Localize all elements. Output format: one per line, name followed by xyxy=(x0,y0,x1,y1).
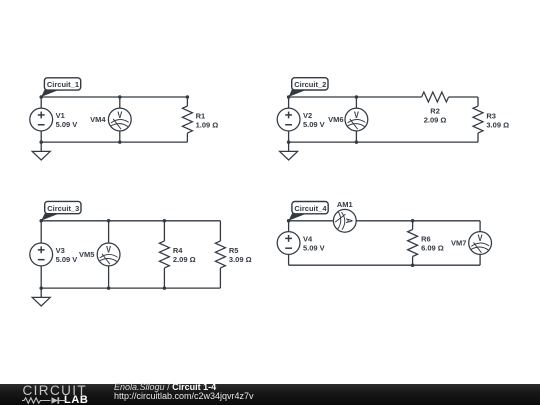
label V1 value xyxy=(56,111,78,129)
node: junction V4 top / flag Circuit_4 xyxy=(287,219,291,223)
resistor R5 xyxy=(215,221,225,288)
label AM1 xyxy=(337,200,353,209)
voltage source V3 xyxy=(30,221,53,288)
voltage source V4 xyxy=(277,221,300,265)
node: junction V1 bottom / ground xyxy=(39,140,43,144)
svg-text:A: A xyxy=(344,218,354,223)
node: junction V2 bottom / ground xyxy=(287,140,291,144)
svg-text:2.09 Ω: 2.09 Ω xyxy=(173,255,196,264)
ground xyxy=(280,142,298,160)
svg-text:R2: R2 xyxy=(430,106,440,115)
footer bar xyxy=(0,384,540,405)
voltmeter VM5 xyxy=(97,221,120,288)
resistor R2 xyxy=(422,92,449,102)
flag Circuit_1 xyxy=(41,78,80,97)
wire: circuit 4 top rail right of AM1 xyxy=(356,220,480,222)
node: junction R4 top xyxy=(163,219,167,223)
resistor R4 xyxy=(159,221,169,288)
resistor R6 xyxy=(408,221,418,265)
svg-text:5.09 V: 5.09 V xyxy=(303,120,325,129)
node: junction V3 bottom / ground xyxy=(39,286,43,290)
wire: circuit 3 top rail xyxy=(41,220,220,222)
voltage source V1 xyxy=(30,97,53,142)
voltage source V2 xyxy=(277,97,300,142)
svg-text:VM6: VM6 xyxy=(328,115,343,124)
label R2 value xyxy=(424,106,447,124)
voltmeter VM4 xyxy=(108,97,131,142)
node: junction VM6 bottom xyxy=(355,140,359,144)
node: junction VM4 bottom xyxy=(118,140,122,144)
CircuitLab logo text LAB xyxy=(64,396,88,405)
svg-text:R6: R6 xyxy=(421,235,431,244)
node: junction V1 top / flag Circuit_1 xyxy=(39,95,43,99)
CircuitLab logo text CIRCUIT xyxy=(23,386,88,396)
svg-text:R1: R1 xyxy=(196,111,206,120)
label V4 value xyxy=(303,235,325,253)
svg-text:5.09 V: 5.09 V xyxy=(56,255,78,264)
wire: circuit 2 top rail right of R2 xyxy=(449,96,478,98)
CircuitLab logo wire/resistor/diode glyph xyxy=(22,396,67,405)
flag Circuit_4 xyxy=(289,202,329,221)
wire: circuit 1 bottom rail xyxy=(41,141,187,143)
flag Circuit_2 xyxy=(289,78,328,97)
svg-text:V1: V1 xyxy=(56,111,65,120)
node: junction R6 top xyxy=(411,219,415,223)
label V2 value xyxy=(303,111,325,129)
node: junction R1 top xyxy=(186,95,190,99)
svg-text:5.09 V: 5.09 V xyxy=(303,244,325,253)
svg-text:R4: R4 xyxy=(173,246,183,255)
svg-text:1.09 Ω: 1.09 Ω xyxy=(196,120,219,129)
label VM5 xyxy=(79,250,94,259)
node: junction R4 bottom xyxy=(163,286,167,290)
voltmeter VM7 xyxy=(469,221,492,265)
ground xyxy=(32,288,50,306)
label R4 value xyxy=(173,246,196,264)
node: junction V3 top / flag Circuit_3 xyxy=(39,219,43,223)
wire: circuit 3 bottom rail xyxy=(41,287,220,289)
svg-text:V4: V4 xyxy=(303,235,313,244)
node: junction R6 bottom xyxy=(411,263,415,267)
node: junction V2 top / flag Circuit_2 xyxy=(287,95,291,99)
node: junction VM5 top xyxy=(107,219,111,223)
label R1 value xyxy=(196,111,219,129)
node: junction VM6 top xyxy=(355,95,359,99)
footer title text xyxy=(114,383,254,401)
svg-text:Circuit_3: Circuit_3 xyxy=(47,204,79,213)
label R6 value xyxy=(421,235,444,253)
svg-text:V2: V2 xyxy=(303,111,312,120)
svg-text:AM1: AM1 xyxy=(337,200,353,209)
svg-text:VM4: VM4 xyxy=(90,115,106,124)
svg-text:R5: R5 xyxy=(229,246,239,255)
svg-text:V3: V3 xyxy=(56,246,65,255)
svg-text:3.09 Ω: 3.09 Ω xyxy=(486,121,509,130)
svg-text:VM5: VM5 xyxy=(79,250,94,259)
label R5 value xyxy=(229,246,252,264)
svg-text:2.09 Ω: 2.09 Ω xyxy=(424,115,447,124)
node: junction VM4 top xyxy=(118,95,122,99)
ammeter AM1 xyxy=(289,209,357,232)
svg-text:Circuit_4: Circuit_4 xyxy=(294,204,327,213)
svg-text:Circuit_1: Circuit_1 xyxy=(47,80,79,89)
label R3 value xyxy=(486,112,509,130)
flag Circuit_3 xyxy=(41,201,81,220)
resistor R1 xyxy=(182,97,192,142)
label VM6 xyxy=(328,115,343,124)
wire: circuit 4 bottom rail xyxy=(289,264,481,266)
svg-text:Circuit_2: Circuit_2 xyxy=(294,80,326,89)
wire: circuit 2 bottom rail xyxy=(289,141,478,143)
wire: circuit 2 top rail left of R2 xyxy=(289,96,422,98)
label VM4 xyxy=(90,115,106,124)
svg-text:3.09 Ω: 3.09 Ω xyxy=(229,255,252,264)
voltmeter VM6 xyxy=(345,97,368,142)
svg-text:5.09 V: 5.09 V xyxy=(56,120,78,129)
svg-text:6.09 Ω: 6.09 Ω xyxy=(421,244,444,253)
wire: circuit 1 top rail xyxy=(41,96,187,98)
label V3 value xyxy=(56,246,78,264)
ground xyxy=(32,142,50,160)
node: junction VM5 bottom xyxy=(107,286,111,290)
svg-text:R3: R3 xyxy=(486,112,496,121)
svg-text:VM7: VM7 xyxy=(451,239,466,248)
label VM7 xyxy=(451,239,466,248)
resistor R3 xyxy=(473,97,483,142)
